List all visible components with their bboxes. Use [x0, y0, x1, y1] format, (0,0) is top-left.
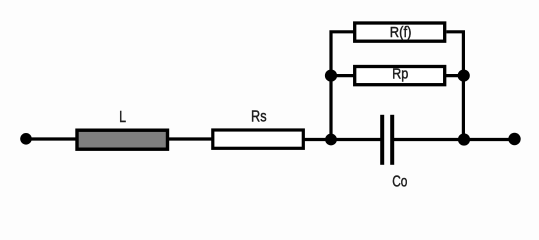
inductor L: [77, 130, 168, 149]
wire L to Rs: [169, 137, 212, 140]
svg-text:Rs: Rs: [251, 109, 267, 126]
resistor Rp: [355, 67, 445, 85]
wire node A to capacitor: [331, 138, 381, 141]
resistor Rs: [213, 130, 303, 148]
wire node B to Rp: [331, 74, 356, 77]
wire node A up to R(f): [331, 32, 354, 140]
capacitor Co right plate: [390, 115, 394, 165]
node D: [458, 133, 470, 145]
wire Rs to node A: [304, 138, 331, 141]
resistor R(f): [355, 23, 445, 41]
wire Rp to node C: [445, 74, 464, 77]
svg-text:R(f): R(f): [390, 24, 412, 41]
wire capacitor to node D: [394, 138, 464, 141]
node C: [458, 70, 470, 82]
svg-text:L: L: [119, 109, 126, 126]
wire node D to right terminal: [464, 138, 515, 141]
wire R(f) to right vertical: [446, 32, 463, 140]
capacitor Co left plate: [380, 115, 384, 165]
svg-text:Co: Co: [392, 173, 407, 190]
right terminal: [508, 133, 520, 145]
node A: [325, 134, 337, 146]
node B: [325, 70, 337, 82]
svg-text:Rp: Rp: [392, 66, 408, 83]
left terminal: [20, 133, 32, 145]
wire terminal to L: [26, 137, 77, 140]
